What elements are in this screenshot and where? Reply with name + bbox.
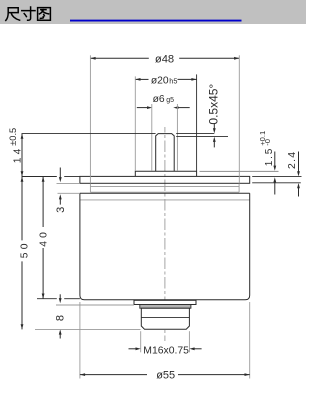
- dimension 2.4: [298, 152, 300, 172]
- extension line boss top (right): [200, 170, 279, 172]
- title bar background: [0, 0, 306, 24]
- svg-text:±0.5: ±0.5: [8, 128, 18, 146]
- dimension Ø48: [90, 57, 148, 59]
- dimension Ø20 h5: [135, 78, 148, 80]
- dimension 50: [21, 177, 23, 241]
- thread undercut (gray): [140, 305, 191, 309]
- extension line plate bottom (right): [252, 182, 301, 184]
- boss (Ø20): [135, 171, 196, 176]
- extension line body bottom (for 40): [37, 298, 57, 300]
- dimension 3: [59, 168, 61, 178]
- svg-text:2.4: 2.4: [287, 151, 298, 169]
- svg-text:50: 50: [20, 240, 31, 258]
- svg-text:h5: h5: [169, 77, 177, 86]
- svg-text:40: 40: [39, 229, 50, 247]
- svg-text:0.5x45°: 0.5x45°: [206, 84, 220, 125]
- svg-text:3: 3: [55, 207, 67, 213]
- title text 尺寸图 (drawn strokes): [6, 7, 51, 20]
- dimension M16x0.75: [140, 331, 142, 352]
- extension line flange top (right): [252, 176, 301, 178]
- dimension Ø55: [79, 302, 81, 379]
- thread line: [141, 317, 189, 319]
- svg-text:1.5: 1.5: [264, 147, 275, 166]
- synchro groove (Ø48 recess): [89, 183, 91, 192]
- svg-text:14: 14: [12, 145, 23, 163]
- collar at bottom: [134, 300, 196, 304]
- svg-text:M16x0.75: M16x0.75: [143, 345, 189, 356]
- main body (Ø55): [80, 193, 250, 299]
- threaded stub M16: [141, 308, 189, 329]
- dimension 40: [42, 177, 44, 228]
- svg-text:ø6: ø6: [153, 94, 165, 105]
- svg-text:g5: g5: [166, 97, 174, 104]
- extension line stub bottom (left): [35, 328, 141, 330]
- top flange plate: [80, 176, 250, 183]
- svg-text:ø55: ø55: [156, 370, 175, 382]
- extension line flange top (left): [22, 176, 57, 178]
- dimension 1.5 +0.1/0: [274, 152, 276, 167]
- groove extension lines (left): [57, 182, 80, 184]
- centerline: [164, 127, 166, 341]
- blue underline link: [70, 20, 242, 22]
- dimension 14 ±0.5: [22, 133, 156, 135]
- svg-text:ø48: ø48: [155, 53, 174, 65]
- svg-text:ø20: ø20: [151, 76, 169, 87]
- dimension 8: [59, 294, 61, 298]
- shaft (Ø6) with chamfered top: [156, 134, 175, 172]
- svg-text:-0: -0: [263, 139, 272, 146]
- lower flange plate: [80, 192, 250, 194]
- svg-text:8: 8: [55, 315, 67, 321]
- extension line collar bottom (left): [56, 304, 134, 306]
